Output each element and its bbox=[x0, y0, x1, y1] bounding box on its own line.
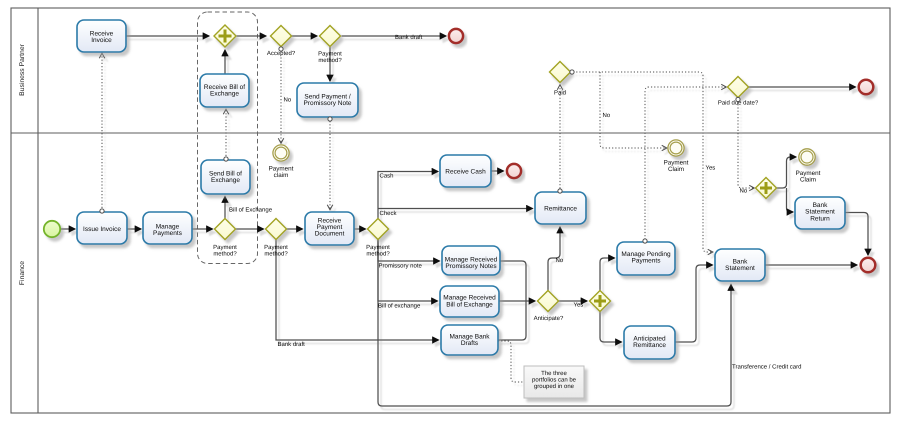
svg-text:Promissory Note: Promissory Note bbox=[303, 100, 351, 107]
event Payment claim C1 bbox=[273, 145, 289, 161]
svg-text:Claim: Claim bbox=[668, 166, 684, 173]
wire G3 to Payment Claim C3 bbox=[777, 157, 797, 188]
event Payment Claim C3 bbox=[799, 149, 815, 165]
gateway Payment method? F2 bbox=[266, 219, 287, 240]
gateway Payment method? F1 bbox=[215, 219, 236, 240]
svg-text:Receive Cash: Receive Cash bbox=[445, 169, 486, 176]
wire F3 check branch to Remittance bbox=[378, 208, 533, 210]
gateway Anticipate? bbox=[538, 291, 559, 312]
wire Anticipate yes to gateway G2 bbox=[559, 300, 588, 302]
lane label column bbox=[37, 8, 39, 413]
svg-text:Remittance: Remittance bbox=[544, 206, 577, 213]
gateway G1 parallel bbox=[214, 25, 236, 47]
task Receive Invoice bbox=[77, 20, 126, 52]
svg-text:Payments: Payments bbox=[153, 230, 183, 237]
task Manage Received Promissory Notes bbox=[442, 246, 500, 275]
svg-text:Bank draft: Bank draft bbox=[278, 341, 306, 348]
wire Receive Bill of Exchange up to gateway G1 bbox=[224, 50, 226, 74]
gateway G3 parallel bbox=[756, 178, 777, 199]
svg-text:Drafts: Drafts bbox=[461, 340, 479, 347]
wire Receive Payment Document to F3 bbox=[354, 228, 366, 230]
message source node on Paid due date bbox=[736, 97, 740, 101]
svg-text:Promissory Notes: Promissory Notes bbox=[445, 263, 497, 270]
svg-text:Business Partner: Business Partner bbox=[19, 43, 26, 95]
svg-text:method?: method? bbox=[366, 251, 390, 258]
note annotation bbox=[524, 366, 584, 398]
svg-text:No: No bbox=[740, 188, 748, 195]
svg-text:method?: method? bbox=[213, 251, 237, 258]
svg-text:Payments: Payments bbox=[632, 258, 662, 265]
wire Receive Cash to end event E3 bbox=[491, 170, 504, 172]
message source node on Send Payment bbox=[328, 117, 332, 121]
wire Manage Payments to gateway F1 bbox=[192, 228, 213, 230]
end event E3 bbox=[507, 164, 521, 178]
wire start to Issue Invoice bbox=[61, 228, 75, 230]
svg-text:Payment: Payment bbox=[264, 244, 288, 251]
task Manage Payments bbox=[143, 212, 192, 244]
wire Manage Received Bill of Exchange to Anticipate bbox=[499, 300, 535, 302]
svg-text:Claim: Claim bbox=[800, 177, 816, 184]
svg-text:Statement: Statement bbox=[725, 265, 755, 272]
end event E1 bbox=[449, 29, 463, 43]
svg-text:Check: Check bbox=[380, 210, 398, 217]
wire G2 up to Manage Pending Payments bbox=[600, 258, 615, 291]
wire Receive Invoice to G1 bbox=[126, 35, 209, 37]
svg-text:Transference / Credit card: Transference / Credit card bbox=[732, 364, 801, 371]
task Bank Statement bbox=[715, 249, 765, 281]
task Issue Invoice bbox=[77, 212, 127, 244]
svg-text:Finance: Finance bbox=[19, 261, 26, 285]
svg-text:Promissory note: Promissory note bbox=[379, 263, 423, 270]
gateway G2 parallel bbox=[590, 291, 611, 312]
lane separator bbox=[11, 132, 890, 134]
svg-text:Invoice: Invoice bbox=[91, 37, 112, 44]
svg-text:The three: The three bbox=[541, 370, 567, 377]
association Manage Bank Drafts to note bbox=[498, 341, 523, 382]
svg-text:method?: method? bbox=[264, 251, 288, 258]
gateway Payment method? F3 bbox=[368, 219, 389, 240]
svg-text:Bill of Exchange: Bill of Exchange bbox=[229, 207, 273, 214]
wire F2 bank draft to Manage Bank Drafts bbox=[276, 240, 439, 341]
svg-text:Bill of Exchange: Bill of Exchange bbox=[446, 301, 493, 308]
svg-text:Yes: Yes bbox=[574, 302, 584, 309]
wire F3 bill of exchange branch to Manage Received Bill of Exchange bbox=[378, 240, 438, 302]
message flow Manage Pending Payments up to Paid due date bbox=[645, 87, 726, 240]
wire Accepted to PM-BP gateway bbox=[292, 35, 318, 37]
svg-text:Issue Invoice: Issue Invoice bbox=[83, 226, 121, 233]
svg-text:Document: Document bbox=[315, 231, 345, 238]
message source node on Accepted bbox=[279, 47, 283, 51]
wire F3 transference branch to Bank Statement bottom bbox=[378, 240, 731, 407]
svg-text:Exchange: Exchange bbox=[210, 91, 239, 98]
gateway Paid due date? bbox=[728, 77, 749, 98]
wire G2 down to Anticipated Remittance bbox=[600, 312, 622, 343]
task Anticipated Remittance bbox=[624, 326, 675, 359]
message flow Remittance up to Paid bbox=[559, 85, 561, 189]
svg-text:Cash: Cash bbox=[380, 173, 394, 180]
task Manage Pending Payments bbox=[617, 242, 675, 275]
wire Bank Statement to end event E4 bbox=[765, 264, 857, 266]
task Receive Bill of Exchange bbox=[200, 74, 249, 107]
wire Anticipated Remittance to Bank Statement bbox=[675, 265, 713, 342]
message source node on Remittance bbox=[558, 189, 562, 193]
svg-text:Exchange: Exchange bbox=[211, 177, 240, 184]
svg-text:Bank draft: Bank draft bbox=[395, 34, 423, 41]
svg-text:No: No bbox=[603, 112, 611, 119]
svg-text:No: No bbox=[284, 97, 292, 104]
svg-text:No: No bbox=[556, 257, 564, 264]
wire F1 up to Send Bill of Exchange bbox=[224, 197, 226, 219]
wire F3 promissory branch to Manage Received Promissory Notes bbox=[378, 240, 440, 262]
message source node on Send Bill bbox=[224, 157, 228, 161]
message flow Send Payment down to Receive Payment Document bbox=[329, 121, 331, 210]
task Receive Cash bbox=[440, 155, 491, 187]
dashed group box bbox=[198, 12, 258, 264]
wire F1 to F2 bbox=[236, 228, 264, 230]
message source node on Manage Pending Payments bbox=[643, 239, 647, 243]
svg-text:portfolios can be: portfolios can be bbox=[532, 377, 577, 384]
task Send Bill of Exchange bbox=[201, 160, 250, 194]
wire Issue Invoice to Manage Payments bbox=[127, 228, 141, 230]
svg-text:Paid: Paid bbox=[554, 90, 566, 97]
svg-text:Payment: Payment bbox=[213, 244, 237, 251]
message flow Send Bill up to Receive Bill bbox=[225, 110, 227, 157]
message flow Paid no branch to Payment Claim C2 bbox=[600, 72, 667, 148]
svg-text:Return: Return bbox=[810, 216, 830, 223]
message source node on Issue Invoice bbox=[100, 209, 104, 213]
svg-text:Yes: Yes bbox=[706, 165, 716, 172]
wire Manage Received Promissory Notes join bbox=[500, 261, 526, 301]
wire Manage Bank Drafts join bbox=[498, 301, 526, 340]
message flow Issue Invoice up to Receive Invoice bbox=[101, 54, 103, 209]
svg-text:grouped in one: grouped in one bbox=[534, 383, 575, 390]
wire G3 down to Bank Statement Return bbox=[787, 188, 794, 212]
svg-text:method?: method? bbox=[318, 57, 342, 64]
svg-text:Bill of exchange: Bill of exchange bbox=[378, 303, 421, 310]
task Receive Payment Document bbox=[305, 212, 354, 245]
gateway Payment method? (business partner) bbox=[320, 26, 341, 47]
gateway Paid bbox=[550, 62, 571, 83]
wire G1 to Accepted bbox=[237, 35, 267, 37]
svg-text:Remittance: Remittance bbox=[633, 342, 666, 349]
task Send Payment / Promissory Note bbox=[297, 83, 358, 117]
gateway Accepted? bbox=[271, 26, 292, 47]
task Remittance bbox=[535, 192, 586, 224]
event Payment Claim C2 bbox=[668, 140, 684, 156]
end event E2 bbox=[859, 80, 874, 95]
task Manage Bank Drafts bbox=[441, 325, 498, 355]
wire F2 to Receive Payment Document bbox=[287, 228, 303, 230]
svg-text:Payment: Payment bbox=[318, 51, 342, 58]
end event E4 bbox=[861, 258, 876, 273]
task Manage Received Bill of Exchange bbox=[440, 286, 499, 317]
wire Anticipate no branch to Remittance bbox=[548, 227, 560, 291]
wire PM-BP down to Send Payment bbox=[329, 47, 331, 81]
message source node on Paid right bbox=[570, 70, 574, 74]
svg-text:claim: claim bbox=[274, 172, 289, 179]
start event bbox=[44, 221, 60, 237]
svg-text:Anticipate?: Anticipate? bbox=[534, 315, 564, 322]
message flow Accepted down to Payment claim C1 bbox=[280, 51, 282, 143]
svg-text:Statement: Statement bbox=[805, 209, 835, 216]
message flow Paid due date down to G3 bbox=[738, 101, 754, 188]
message flow Paid yes to Bank Statement bbox=[573, 72, 713, 252]
svg-text:Payment: Payment bbox=[366, 244, 390, 251]
wire Bank Statement Return to end event E4 top bbox=[845, 213, 868, 256]
task Bank Statement Return bbox=[795, 197, 845, 229]
wire Paid due date to end event E2 bbox=[749, 86, 856, 88]
wire PM-BP to end event E1 bbox=[342, 35, 447, 37]
wire F3 cash branch to Receive Cash bbox=[378, 172, 438, 219]
